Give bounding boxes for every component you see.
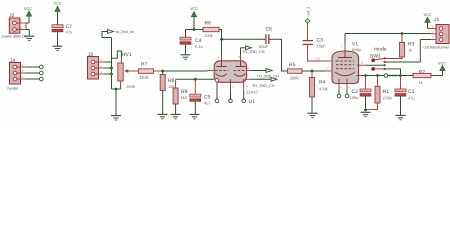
svg-text:47u: 47u [66,30,73,35]
svg-text:power 300v DC: power 300v DC [2,35,28,39]
svg-text:0.1u: 0.1u [195,44,203,49]
svg-text:1,6: 1,6 [316,57,320,61]
svg-text:C3: C3 [317,37,324,43]
svg-text:J1: J1 [434,17,440,23]
svg-text:C1: C1 [408,89,415,95]
svg-text:R7: R7 [141,62,148,68]
svg-text:6n6p: 6n6p [352,47,362,52]
svg-text:to_2nd_sh: to_2nd_sh [116,30,134,34]
svg-text:470k: 470k [319,86,328,91]
svg-text:VCC: VCC [423,13,431,17]
svg-text:C5: C5 [204,94,211,100]
svg-text:TO_2ND_CH: TO_2ND_CH [252,84,275,88]
svg-text:VCC: VCC [24,7,32,11]
svg-text:out transformer: out transformer [424,46,450,50]
svg-text:out_1: out_1 [305,7,310,17]
svg-text:U1: U1 [249,99,256,105]
svg-text:1k: 1k [419,80,423,85]
svg-text:270R: 270R [383,96,393,101]
svg-text:TO_2ND_CH: TO_2ND_CH [242,50,265,54]
svg-text:390R: 390R [290,75,300,80]
svg-text:1k5: 1k5 [181,95,188,100]
svg-text:12AX7: 12AX7 [246,89,259,94]
svg-text:VCC: VCC [53,1,61,5]
svg-text:RV1: RV1 [122,52,132,58]
svg-text:C4: C4 [195,38,202,44]
svg-text:TO_2ND_CH: TO_2ND_CH [257,74,280,78]
svg-text:R3: R3 [408,42,415,48]
svg-text:100k: 100k [204,33,213,38]
svg-text:47u: 47u [408,96,415,101]
svg-text:VCC: VCC [190,7,198,11]
svg-text:R5: R5 [289,62,296,68]
svg-text:R8: R8 [168,78,175,84]
svg-text:mode: mode [374,46,387,52]
svg-text:C6: C6 [266,27,273,33]
svg-text:1k: 1k [408,48,412,53]
svg-text:R6: R6 [205,20,212,26]
svg-text:100u: 100u [350,95,359,100]
svg-text:390R: 390R [139,75,149,80]
svg-text:10pF: 10pF [317,44,327,49]
svg-text:R4: R4 [319,80,326,86]
svg-text:4u7: 4u7 [204,101,211,106]
svg-text:VCC: VCC [438,61,446,65]
svg-text:heater: heater [8,86,20,90]
svg-text:63uF: 63uF [259,44,269,49]
svg-text:R1: R1 [383,89,390,95]
svg-text:100K: 100K [126,84,136,89]
